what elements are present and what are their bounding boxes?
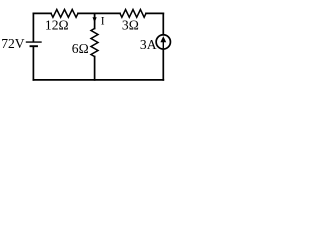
wire middle branch lower [94, 57, 96, 80]
svg-text:6Ω: 6Ω [72, 41, 89, 56]
wire top right segment [146, 12, 163, 14]
current source I1 arrowhead up [160, 36, 166, 42]
wire right vertical upper [162, 13, 164, 34]
svg-text:12Ω: 12Ω [45, 18, 69, 33]
svg-text:72V: 72V [1, 36, 25, 51]
branch current arrowhead down [93, 17, 97, 22]
wire left vertical lower [32, 47, 34, 80]
wire middle branch upper [94, 13, 96, 28]
wire right vertical lower [162, 49, 164, 80]
svg-text:I: I [101, 15, 105, 27]
current source I1 circle [156, 35, 170, 49]
svg-text:3Ω: 3Ω [122, 17, 139, 32]
resistor R2 6ohm [91, 29, 98, 57]
battery V1 plate long [27, 41, 42, 43]
svg-text:3A: 3A [140, 37, 157, 52]
wire top middle segment [78, 12, 120, 14]
wire top left segment [33, 12, 51, 14]
wire bottom [33, 79, 163, 81]
branch current arrow shaft [94, 13, 96, 20]
wire left vertical upper [32, 13, 34, 41]
current source I1 arrow shaft [162, 39, 164, 48]
resistor R1 12ohm [51, 10, 78, 18]
battery V1 plate short [31, 45, 38, 47]
resistor R3 3ohm [120, 10, 146, 18]
